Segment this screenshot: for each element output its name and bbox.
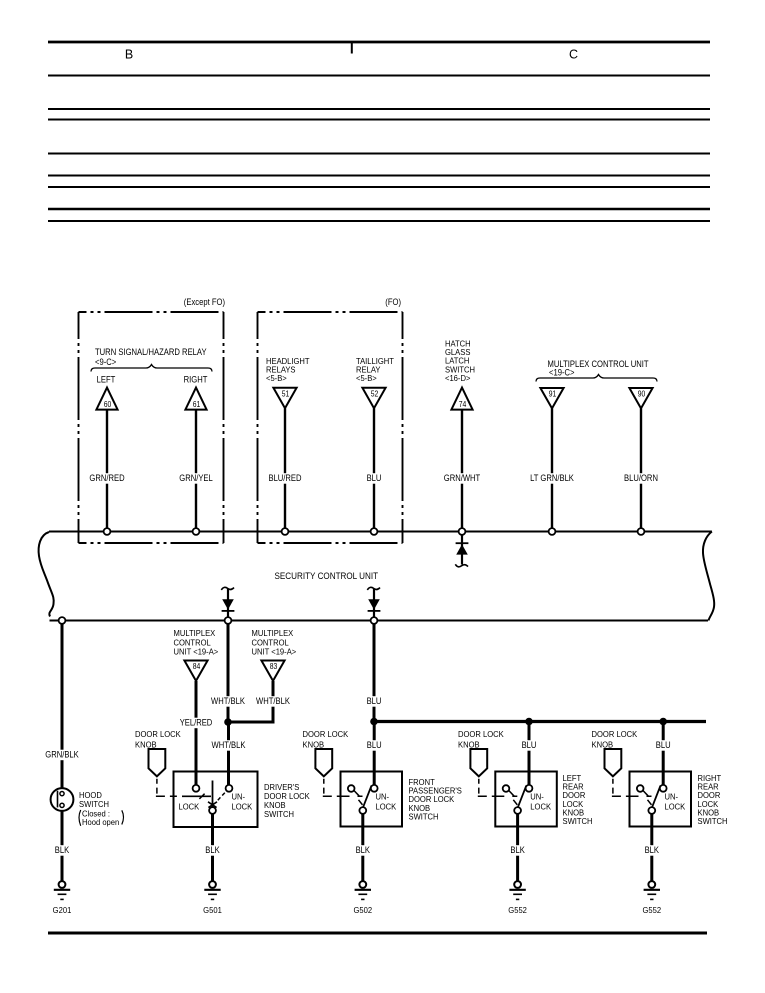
svg-text:UN-: UN- — [665, 792, 679, 801]
connector triangle 51 (headlight relays) — [273, 388, 296, 408]
brace over 91/90 — [536, 375, 657, 382]
svg-text:G201: G201 — [53, 906, 72, 915]
page rule 8 — [48, 208, 710, 210]
connector triangle 91 (multiplex control unit) — [540, 388, 563, 408]
wire GRN/RED — [106, 410, 108, 532]
svg-text:G552: G552 — [642, 906, 661, 915]
security control unit right torn edge — [703, 532, 714, 621]
left rear door lock knob switch — [495, 772, 557, 827]
svg-text:83: 83 — [270, 662, 278, 672]
BLU bus wire — [374, 720, 706, 723]
svg-text:LOCK: LOCK — [179, 802, 200, 811]
svg-text:WHT/BLK: WHT/BLK — [212, 739, 246, 750]
svg-text:SWITCH: SWITCH — [563, 817, 593, 826]
svg-text:YEL/RED: YEL/RED — [180, 717, 213, 728]
page rule 6 — [48, 175, 710, 177]
terminal on unit top edge x=552 — [549, 528, 556, 535]
security control unit bottom edge — [50, 620, 709, 622]
wire BLU/RED — [284, 408, 286, 531]
svg-text:BLU: BLU — [522, 739, 537, 750]
svg-text:90: 90 — [638, 389, 646, 399]
bottom border rule — [48, 932, 707, 935]
wire BLU to left rear switch — [528, 722, 531, 786]
svg-text:LOCK: LOCK — [232, 802, 253, 811]
page rule 1 — [48, 41, 710, 44]
security control unit left torn edge — [39, 532, 54, 617]
svg-text:<9-C>: <9-C> — [95, 356, 116, 367]
terminal on unit bottom edge x=62 — [59, 617, 66, 624]
connector triangle 84 (multiplex control unit) — [184, 661, 207, 681]
connector triangle 90 (multiplex control unit) — [629, 388, 652, 408]
svg-text:B: B — [125, 48, 133, 62]
svg-text:MULTIPLEX: MULTIPLEX — [252, 629, 294, 638]
connector triangle 83 (multiplex control unit) — [261, 661, 284, 681]
svg-text:LEFT: LEFT — [97, 374, 116, 385]
svg-text:SWITCH: SWITCH — [698, 817, 728, 826]
svg-text:UN-: UN- — [376, 792, 390, 801]
svg-text:UNIT <19-A>: UNIT <19-A> — [252, 647, 297, 656]
svg-text:52: 52 — [371, 389, 379, 399]
svg-text:KNOB: KNOB — [458, 740, 480, 749]
dashed box (FO) — [258, 311, 403, 313]
svg-text:60: 60 — [104, 400, 112, 410]
svg-text:74: 74 — [459, 400, 467, 410]
wire WHT/BLK from triangle 83 — [228, 681, 273, 722]
tick mark under rule 1 — [351, 43, 353, 54]
svg-text:91: 91 — [549, 389, 557, 399]
svg-text:SECURITY CONTROL UNIT: SECURITY CONTROL UNIT — [275, 570, 379, 581]
wire BLU to right rear switch — [662, 722, 665, 786]
page rule 7 — [48, 186, 710, 188]
wire BLU (taillight) — [373, 408, 375, 531]
connector triangle 61 (RIGHT turn signal) — [185, 388, 206, 410]
wire BLU from unit — [373, 624, 376, 722]
page rule 3 — [48, 108, 710, 110]
brace over LEFT/RIGHT — [91, 365, 212, 372]
svg-text:SWITCH: SWITCH — [79, 800, 109, 809]
svg-text:BLU: BLU — [367, 472, 382, 483]
svg-text:BLU/RED: BLU/RED — [268, 472, 301, 483]
wire YEL/RED — [195, 681, 198, 785]
svg-text:GRN/BLK: GRN/BLK — [45, 749, 79, 760]
terminal on unit top edge x=285 — [282, 528, 289, 535]
svg-text:CONTROL: CONTROL — [174, 638, 212, 647]
svg-text:(Except FO): (Except FO) — [184, 296, 225, 307]
ground G552 (right rear) — [648, 881, 655, 888]
svg-text:G552: G552 — [508, 906, 527, 915]
svg-text:BLU/ORN: BLU/ORN — [624, 472, 658, 483]
svg-text:DOOR LOCK: DOOR LOCK — [264, 792, 310, 801]
connector triangle 74 (hatch glass latch switch) — [451, 388, 472, 410]
svg-text:BLK: BLK — [510, 844, 525, 855]
svg-text:Hood open: Hood open — [82, 818, 119, 827]
svg-text:RIGHT: RIGHT — [184, 374, 208, 385]
door lock knob (driver) — [149, 749, 166, 776]
junction BLU at front passenger — [370, 718, 378, 726]
svg-text:WHT/BLK: WHT/BLK — [211, 695, 245, 706]
terminal on unit top edge x=641 — [638, 528, 645, 535]
wire BLK (left rear) — [516, 814, 519, 881]
right rear door lock knob switch — [630, 772, 692, 827]
wire GRN/BLK (hood switch) — [61, 624, 64, 788]
front passenger's door lock knob switch — [341, 772, 403, 827]
wire GRN/YEL — [195, 410, 197, 532]
svg-text:CONTROL: CONTROL — [252, 638, 290, 647]
svg-text:LOCK: LOCK — [376, 802, 397, 811]
svg-text:LOCK: LOCK — [665, 802, 686, 811]
svg-text:LOCK: LOCK — [530, 802, 551, 811]
wire BLK (driver) — [211, 814, 214, 881]
junction BLU at right rear — [659, 718, 667, 726]
svg-text:DRIVER'S: DRIVER'S — [264, 783, 299, 792]
svg-text:GRN/WHT: GRN/WHT — [444, 472, 480, 483]
page rule 2 — [48, 75, 710, 77]
ground G501 — [209, 881, 216, 888]
door lock knob (front passenger) — [315, 749, 332, 776]
svg-text:DOOR LOCK: DOOR LOCK — [303, 730, 349, 739]
svg-text:84: 84 — [193, 662, 201, 672]
svg-text:61: 61 — [193, 400, 201, 410]
ground G201 — [59, 881, 66, 888]
security control unit top edge — [49, 531, 712, 533]
wire BLK (right rear) — [650, 814, 653, 881]
svg-text:KNOB: KNOB — [135, 740, 157, 749]
svg-text:WHT/BLK: WHT/BLK — [256, 695, 290, 706]
svg-text:DOOR LOCK: DOOR LOCK — [135, 730, 181, 739]
svg-text:UNIT <19-A>: UNIT <19-A> — [174, 647, 219, 656]
svg-text:HOOD: HOOD — [79, 791, 102, 800]
svg-text:GRN/RED: GRN/RED — [89, 472, 124, 483]
wire BLK (hood switch) — [61, 811, 64, 881]
ground G502 — [359, 881, 366, 888]
connector triangle 52 (taillight relay) — [362, 388, 385, 408]
driver's door lock knob switch — [174, 772, 258, 828]
svg-text:UN-: UN- — [530, 792, 544, 801]
junction WHT/BLK — [224, 718, 232, 726]
svg-text:<16-D>: <16-D> — [445, 374, 471, 383]
svg-text:<5-B>: <5-B> — [356, 374, 377, 383]
arrow out of unit (down) x=374 — [373, 589, 375, 617]
svg-text:BLK: BLK — [205, 844, 220, 855]
terminal on unit top edge x=374 — [371, 528, 378, 535]
wire BLU to front passenger switch — [373, 722, 376, 786]
svg-text:<19-C>: <19-C> — [549, 367, 575, 378]
terminal on unit top edge x=462 — [459, 528, 466, 535]
door lock knob (right rear) — [605, 749, 622, 776]
wire WHT/BLK to driver switch — [227, 722, 230, 785]
svg-text:<5-B>: <5-B> — [266, 374, 287, 383]
terminal on unit bottom edge x=374 — [371, 617, 378, 624]
svg-text:BLK: BLK — [55, 844, 70, 855]
svg-text:BLK: BLK — [356, 844, 371, 855]
page rule 5 — [48, 153, 710, 155]
svg-text:51: 51 — [282, 389, 290, 399]
svg-text:G502: G502 — [353, 906, 372, 915]
wire WHT/BLK from unit — [227, 624, 230, 722]
dashed box (Except FO) — [79, 311, 224, 313]
svg-text:BLU: BLU — [367, 739, 382, 750]
door lock knob (left rear) — [470, 749, 487, 776]
svg-text:KNOB: KNOB — [592, 740, 614, 749]
svg-text:SWITCH: SWITCH — [264, 810, 294, 819]
wire BLK (front passenger) — [361, 814, 364, 881]
svg-text:GRN/YEL: GRN/YEL — [179, 472, 213, 483]
svg-text:KNOB: KNOB — [264, 801, 286, 810]
svg-text:(FO): (FO) — [385, 296, 401, 307]
svg-text:UN-: UN- — [232, 792, 246, 801]
svg-text:G501: G501 — [203, 906, 222, 915]
svg-text:C: C — [569, 48, 578, 62]
svg-text:KNOB: KNOB — [303, 740, 325, 749]
arrow out of unit (down) x=228 — [227, 589, 229, 617]
arrow into unit (up) at GRN/WHT — [461, 535, 463, 565]
hood switch — [51, 788, 74, 811]
svg-text:BLU: BLU — [367, 695, 382, 706]
terminal on unit top edge x=107 — [104, 528, 111, 535]
page rule 4 — [48, 119, 710, 121]
terminal on unit top edge x=196 — [193, 528, 200, 535]
svg-text:MULTIPLEX: MULTIPLEX — [174, 629, 216, 638]
svg-text:BLU: BLU — [656, 739, 671, 750]
wire LT GRN/BLK — [551, 408, 553, 531]
svg-text:LT GRN/BLK: LT GRN/BLK — [530, 472, 574, 483]
ground G552 (left rear) — [514, 881, 521, 888]
junction BLU at left rear — [525, 718, 533, 726]
svg-text:DOOR LOCK: DOOR LOCK — [592, 730, 638, 739]
wire BLU/ORN — [640, 408, 642, 531]
svg-text:DOOR LOCK: DOOR LOCK — [458, 730, 504, 739]
svg-text:SWITCH: SWITCH — [409, 812, 439, 821]
page rule 9 — [48, 220, 710, 222]
svg-text:BLK: BLK — [645, 844, 660, 855]
terminal on unit bottom edge x=228 — [225, 617, 232, 624]
wire GRN/WHT — [461, 410, 463, 532]
connector triangle 60 (LEFT turn signal) — [96, 388, 117, 410]
